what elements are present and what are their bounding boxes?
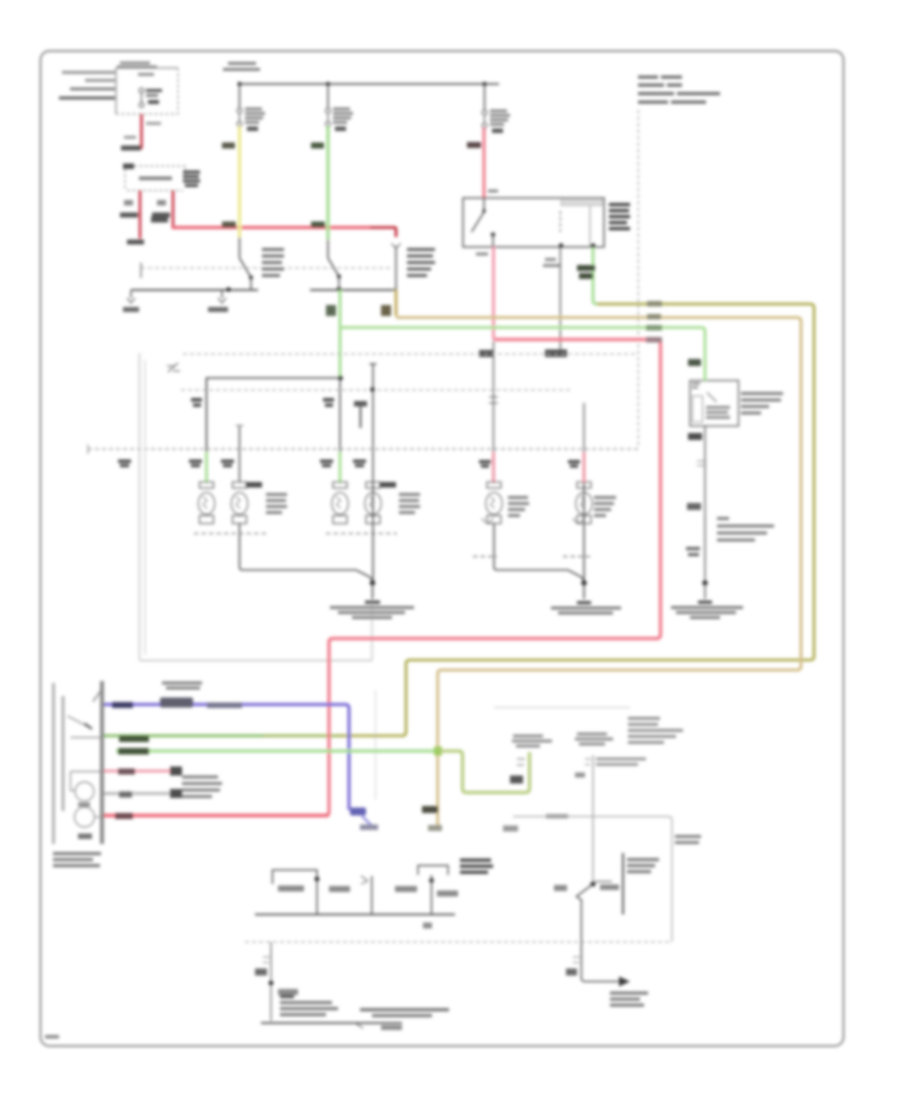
ground branch side label	[278, 989, 298, 995]
node ground left	[370, 580, 375, 585]
ground wire left lamps	[240, 524, 373, 581]
ground G1	[123, 290, 139, 312]
dashed line left terminal	[140, 263, 142, 279]
relay K3 label	[407, 248, 435, 277]
wire label on dashed boundary	[479, 350, 493, 357]
connector halfcircle RB1	[483, 518, 493, 523]
DRL connector label	[717, 517, 774, 542]
wire red tail lamp feed	[104, 814, 329, 817]
wire pink loop	[104, 340, 661, 816]
fog3 label	[437, 891, 458, 897]
node power-2	[326, 82, 330, 86]
ground bus bar	[261, 1022, 402, 1024]
wire green leg to low beam mid	[339, 378, 341, 452]
small label under green terminal	[503, 826, 518, 832]
wire high beam mid	[370, 364, 377, 482]
wire SW1-A end label	[127, 240, 144, 245]
wire red label	[115, 813, 133, 819]
relay K2 switch	[328, 239, 341, 290]
wire green upper color label	[311, 143, 324, 149]
label below ground bus	[381, 1025, 402, 1030]
bottom bus line	[255, 914, 455, 916]
wire pink U1 pin30 down	[494, 247, 496, 340]
bulb RB1 right low beam	[486, 482, 502, 524]
wire red from FB1	[140, 114, 143, 149]
inline connector T symbol	[354, 401, 367, 407]
connector end label C1	[121, 146, 141, 151]
bulb LB4 mid high beam	[365, 482, 381, 524]
wire light green2 continue	[440, 751, 530, 793]
pink end connector	[170, 767, 182, 776]
switch blade diagonal	[68, 716, 89, 727]
DRL relay callout text	[628, 717, 683, 744]
node K2 out	[337, 287, 342, 292]
switch SW1 contact bar	[139, 177, 172, 181]
wire light green2 parking	[116, 749, 434, 752]
fog input 2 connector	[361, 876, 368, 884]
relay U1 pin label left	[476, 253, 488, 256]
relay U1 internal switch	[472, 198, 496, 247]
wire gray label	[119, 792, 132, 798]
wire red from F4 to relay box	[482, 128, 485, 198]
housing bar RB2	[563, 556, 590, 558]
junction block bar inner	[62, 696, 65, 811]
bottom switch label right	[600, 885, 619, 891]
wire label leg1	[191, 398, 202, 407]
wire light green low beam sense	[341, 328, 706, 332]
relay K2 output line	[310, 289, 397, 291]
DRL wire label mid	[687, 503, 701, 510]
wire pink interior lamps	[104, 770, 171, 773]
connector label below	[78, 834, 92, 840]
bottom module box top edge	[513, 817, 672, 943]
wire khaki K3 down	[395, 290, 398, 316]
output wire label	[566, 969, 577, 976]
ground stub left	[372, 583, 374, 599]
node DRL ground	[702, 580, 707, 585]
node power-3	[482, 82, 486, 86]
node U1 pin87	[559, 243, 563, 247]
wire khaki K3 label	[381, 305, 391, 316]
node U1 pin-green	[591, 243, 595, 247]
blue end tail	[362, 816, 374, 828]
power rail B+	[238, 83, 499, 85]
housing bar RB1	[473, 556, 497, 558]
wire green DRL label	[688, 359, 701, 366]
bottom switch label left	[554, 885, 567, 891]
lamp assembly gray edge right lower	[371, 588, 373, 661]
fuse F1 30A value label	[138, 73, 154, 76]
hot at all times label	[223, 62, 260, 71]
wire red F4 color label	[467, 142, 481, 148]
relay K3 connector halfcircle	[392, 243, 400, 247]
wire high beam left	[239, 426, 241, 482]
relay K1 label	[262, 248, 284, 277]
dashed boundary left tick	[87, 445, 89, 455]
wire green from F3	[326, 127, 329, 240]
wire label mid on dashed boundary	[545, 350, 567, 358]
dashed boundary vertical right	[637, 110, 639, 447]
fuse F3 drop	[327, 84, 329, 108]
bulb LB2 left high beam	[231, 482, 247, 524]
wire red FB1 color label	[146, 122, 161, 125]
wire tan end connector label	[428, 825, 442, 831]
arrow to DRL resistor	[619, 977, 630, 987]
relay K3 drop	[395, 246, 397, 290]
DRL connector tick	[697, 461, 706, 466]
fog input 2 wire	[371, 876, 373, 915]
wire green2 label	[118, 748, 149, 755]
wire SW1-B color label	[157, 200, 166, 206]
pin C loop and lamp circle 1	[71, 772, 101, 802]
terminal bar label	[627, 858, 659, 873]
connector halfcircle RB2	[574, 518, 584, 523]
junction block bar outer	[52, 683, 55, 844]
tick below bus	[423, 923, 432, 929]
ground wire right lamps	[494, 524, 584, 581]
lamp circle 2 pin	[95, 816, 101, 818]
node bottom switch	[590, 881, 595, 886]
bulb pair1 label	[266, 493, 287, 514]
wire SW1-A connector label	[120, 213, 138, 218]
wire yellow upper color label	[222, 143, 235, 149]
lamp assembly gray edge bottom	[140, 660, 373, 662]
wire red SW1-A	[139, 191, 142, 239]
wire green U1 right pin	[593, 248, 597, 304]
wire label leg2	[323, 398, 334, 407]
wire yellow from F2	[238, 127, 241, 238]
fuse block FB1 label above	[117, 62, 157, 69]
fog input bracket 1	[273, 870, 318, 915]
lamp assembly gray edge left outer	[139, 353, 141, 660]
wire color labels right of boundary	[646, 301, 662, 343]
fuse F4 symbol	[482, 110, 487, 128]
junction block bus	[100, 681, 104, 844]
fog3 wire	[431, 875, 433, 915]
DRL ground stub	[704, 583, 706, 599]
connector marks on green2 drop	[517, 759, 525, 765]
wire green K2 label	[326, 305, 336, 316]
wire red SW1-B	[172, 191, 175, 227]
wire RB2 to node	[583, 403, 585, 452]
connector label above blue	[162, 682, 202, 690]
gray end connector	[170, 789, 182, 798]
node ground right	[581, 580, 586, 585]
node on mid boundary	[370, 387, 375, 392]
bulb socket label dark LB2	[246, 482, 262, 488]
wire blue label	[112, 702, 133, 708]
DRL module U2 box	[690, 381, 739, 427]
DRL module label	[741, 392, 783, 415]
wire gray U1 pin30 continue to lamp	[493, 341, 495, 452]
interior lamps callout text	[182, 776, 222, 799]
wire olive loop DRL feed	[338, 304, 814, 736]
bottom switch blade	[577, 884, 594, 897]
DRL inline connector dashes	[704, 517, 706, 562]
fog1 label left	[278, 886, 304, 892]
gray box edge bottom right area	[494, 707, 630, 709]
wire SW1-B corner label	[151, 217, 168, 223]
page number text	[45, 1035, 59, 1039]
wire gray illumination	[104, 792, 171, 795]
bulb RB2 label	[594, 496, 616, 517]
wire gray U1 mid pin down	[559, 247, 561, 350]
fuse F3 label	[333, 108, 353, 132]
tick on ground bus	[355, 1023, 363, 1028]
wire yellow color label	[222, 222, 236, 228]
fuse F1 name label	[146, 89, 162, 104]
node feed junction	[338, 376, 343, 381]
dashed actuator line relays	[141, 267, 390, 269]
DRL wire label low	[686, 547, 700, 556]
ground label right lamps	[551, 601, 621, 615]
wire DRL output	[704, 426, 706, 583]
relay U1 pin label mid	[543, 258, 561, 267]
fuse F4 label	[490, 110, 510, 134]
wire labels at lamp pins	[118, 460, 580, 468]
fuse F2 drop	[239, 84, 241, 108]
wire green1 label	[119, 736, 149, 743]
bottom switch output	[581, 899, 619, 982]
node power-1	[237, 82, 241, 86]
bus top diagonal	[93, 688, 103, 702]
ground branch label	[255, 969, 267, 976]
bulb RB2 right high beam	[576, 482, 592, 524]
wire blue right label	[207, 703, 242, 709]
ground branch below dashed	[270, 942, 272, 1021]
ground bus text	[280, 995, 338, 1016]
node green2 x tan	[434, 747, 442, 756]
lighting switch SW1 box (dashed)	[123, 164, 186, 191]
blue end label	[360, 825, 378, 831]
bulb RB1 label	[508, 496, 529, 517]
wire green into DRL	[704, 331, 707, 381]
switch SW1 right label	[183, 171, 200, 188]
dashed boundary bottom module	[245, 941, 672, 943]
ground label left lamps	[330, 601, 414, 620]
wire green U1 label	[577, 265, 595, 279]
wire olive-green left segment	[262, 734, 340, 737]
wire high beam mid to node	[372, 482, 374, 583]
wire SW1-A color label	[124, 200, 133, 206]
bulb LB3 mid low beam	[332, 482, 348, 524]
wire blue headlamp leveling	[104, 705, 349, 811]
connector C-lamp marks	[489, 397, 498, 403]
fuse F4 drop	[484, 84, 486, 110]
relay K1 output line	[131, 289, 258, 291]
relay box pin label top	[488, 190, 498, 193]
terminal bar component	[622, 853, 624, 915]
green2 terminal label	[512, 735, 552, 748]
ground bus text right	[360, 1008, 449, 1017]
bottom switch feed	[592, 755, 594, 884]
connector marks on output	[573, 957, 580, 963]
lamp circle 2	[75, 807, 95, 827]
bottom resistor label dark	[460, 859, 493, 874]
fog1 label right	[329, 886, 350, 892]
wire green color label	[311, 222, 325, 228]
dashed boundary lamp assy top	[183, 353, 638, 355]
arrow label	[610, 992, 648, 1007]
lamp assembly gray edge left inner	[144, 360, 146, 655]
node K1 out	[226, 287, 231, 292]
junction block label	[53, 852, 101, 867]
wire red feed dark segment to relay 3	[370, 228, 396, 238]
gray box edge vertical low	[375, 690, 377, 800]
wire tan loop	[396, 318, 801, 829]
connector symbol on boundary	[167, 363, 180, 372]
wire green leg to low beam left	[205, 452, 208, 483]
housing bar pair1	[194, 533, 266, 535]
node fog3	[429, 878, 434, 883]
blue end connector	[350, 808, 366, 816]
headlamp relay box U1	[463, 198, 604, 247]
hot in run label top right	[638, 76, 720, 104]
bulb socket label dark LB4	[380, 482, 396, 488]
label between circles	[78, 803, 90, 807]
green2 wire label low	[510, 776, 523, 784]
fog2 label	[395, 886, 417, 892]
wire red feed horizontal to relays	[172, 226, 372, 229]
inline connector on blue	[160, 698, 193, 708]
fuse F1 symbol	[139, 88, 144, 107]
dashed boundary lamp assy mid	[181, 389, 572, 391]
ground stub right	[583, 583, 585, 599]
wire green K2 to lamps	[339, 290, 342, 377]
housing bar pair2	[326, 533, 397, 535]
wire SW1-B connector label	[152, 213, 170, 218]
bottom switch tick right	[595, 881, 612, 883]
fuse block FB1 left callout text	[59, 71, 115, 100]
dashed boundary lamp assy bottom	[88, 448, 639, 450]
bottom module top label	[546, 814, 568, 819]
fuse F2 label	[245, 108, 265, 132]
wire tan end label	[422, 806, 438, 813]
relay K1 switch	[240, 237, 254, 290]
DRL output pin label	[688, 433, 702, 440]
connector tick high beam left	[236, 425, 244, 427]
bulb pair2 label	[399, 493, 420, 514]
bulb LB1 left low beam	[198, 482, 214, 524]
ground G2	[208, 290, 228, 312]
fuse F3 symbol	[326, 108, 331, 126]
node fog1	[315, 877, 320, 882]
relay U1 right label block	[609, 203, 630, 230]
connector marks ground branch	[263, 957, 270, 963]
pin line for green1	[71, 737, 101, 739]
fog input bracket 3	[418, 866, 448, 876]
fuse F2 symbol	[237, 108, 242, 126]
lamp feed bus bracket	[207, 378, 341, 482]
node ground branch	[269, 981, 274, 986]
relay U1 internal coil pin	[559, 211, 561, 232]
fuse block FB1 box	[116, 68, 178, 114]
wire pink label	[118, 769, 135, 775]
bottom module right label	[675, 835, 701, 844]
DRL ground label	[671, 601, 743, 620]
